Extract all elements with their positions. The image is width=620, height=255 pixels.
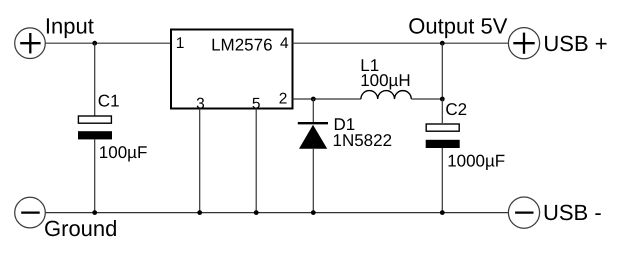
wire U1 pin 4 to USB + (293, 42, 509, 44)
wire C2 bottom lead (441, 148, 443, 213)
svg-text:USB +: USB + (543, 31, 607, 56)
wire output node down to L1/C2 node (441, 43, 443, 99)
node junction rail/pin3 (197, 210, 202, 215)
svg-text:Input: Input (45, 13, 94, 38)
terminal USB + (508, 28, 539, 59)
terminal USB - (508, 197, 539, 228)
svg-text:2: 2 (279, 90, 288, 107)
wire D1 cathode lead (312, 99, 314, 122)
wire ground rail (45, 212, 508, 214)
wire C2 top lead (441, 99, 443, 123)
node junction rail/D1 (311, 210, 316, 215)
wire C1 top lead (94, 43, 96, 115)
wire U1 pin 2 to L1 (293, 98, 362, 100)
svg-text:USB -: USB - (543, 200, 602, 225)
svg-text:1N5822: 1N5822 (333, 131, 393, 150)
wire input to U1 pin 1 (45, 42, 170, 44)
svg-text:100µH: 100µH (360, 71, 410, 90)
inductor L1 (361, 91, 411, 99)
svg-text:100µF: 100µF (99, 143, 148, 162)
wire U1 pin 5 to ground rail (255, 109, 257, 213)
node junction L1/C2 (440, 97, 445, 102)
wire D1 anode lead to ground rail (312, 149, 314, 213)
wire C1 bottom lead (94, 139, 96, 212)
diode D1 1N5822 (298, 123, 328, 149)
svg-text:3: 3 (196, 96, 205, 113)
terminal Ground (-) (15, 197, 46, 228)
node junction rail/pin5 (254, 210, 259, 215)
op-amp U1 LM2576 regulator box (171, 30, 293, 109)
capacitor C1 (78, 116, 112, 139)
terminal Input (+) (15, 28, 46, 59)
node junction output (440, 41, 445, 46)
wire L1 to C2 node (411, 98, 442, 100)
node junction rail/C2 (440, 210, 445, 215)
svg-text:C1: C1 (98, 91, 120, 110)
svg-text:Ground: Ground (44, 216, 117, 241)
svg-text:LM2576: LM2576 (211, 36, 272, 55)
svg-text:1000µF: 1000µF (447, 151, 505, 170)
wire U1 pin 3 to ground rail (199, 109, 201, 213)
svg-text:C2: C2 (445, 100, 467, 119)
svg-text:4: 4 (280, 35, 289, 52)
node junction pin2/D1 (311, 97, 316, 102)
svg-text:1: 1 (176, 35, 185, 52)
node junction rail/C1 (92, 210, 97, 215)
svg-text:Output 5V: Output 5V (408, 13, 507, 38)
capacitor C2 (426, 124, 460, 148)
node junction input/C1 (92, 41, 97, 46)
